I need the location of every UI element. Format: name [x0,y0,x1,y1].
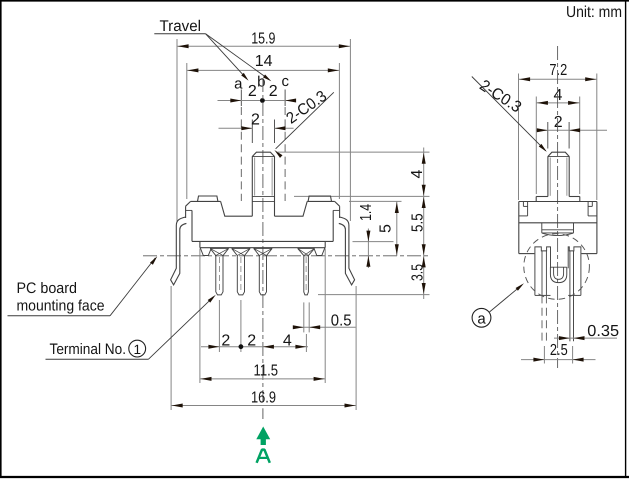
svg-text:4: 4 [409,169,426,178]
svg-text:Travel: Travel [160,18,202,35]
svg-text:c: c [281,73,289,90]
svg-text:1.4: 1.4 [358,204,375,221]
svg-text:2: 2 [248,83,257,100]
svg-text:2-C0.3: 2-C0.3 [476,77,524,116]
svg-text:0.5: 0.5 [331,312,352,329]
svg-text:2: 2 [221,332,230,349]
svg-text:b: b [257,73,265,90]
svg-text:15.9: 15.9 [251,30,275,47]
svg-text:PC board: PC board [17,280,78,297]
svg-text:a: a [477,310,486,327]
svg-text:5.5: 5.5 [409,213,426,232]
svg-text:Unit: mm: Unit: mm [566,4,622,21]
svg-text:2.5: 2.5 [550,342,568,359]
svg-text:2: 2 [269,83,278,100]
svg-text:a: a [234,76,243,93]
svg-text:7.2: 7.2 [549,62,567,79]
svg-text:14: 14 [255,53,273,70]
svg-text:11.5: 11.5 [254,362,279,379]
svg-text:2: 2 [251,111,260,128]
svg-text:2-C0.3: 2-C0.3 [284,88,331,128]
svg-text:2: 2 [554,114,563,131]
svg-text:1: 1 [133,342,141,357]
svg-text:4: 4 [283,332,292,349]
svg-text:3.5: 3.5 [409,264,426,281]
svg-text:Terminal No.: Terminal No. [50,341,127,358]
svg-text:mounting face: mounting face [17,298,105,315]
svg-text:5: 5 [377,224,394,233]
svg-text:16.9: 16.9 [251,389,276,406]
svg-text:2: 2 [247,332,256,349]
svg-text:0.35: 0.35 [587,323,619,340]
